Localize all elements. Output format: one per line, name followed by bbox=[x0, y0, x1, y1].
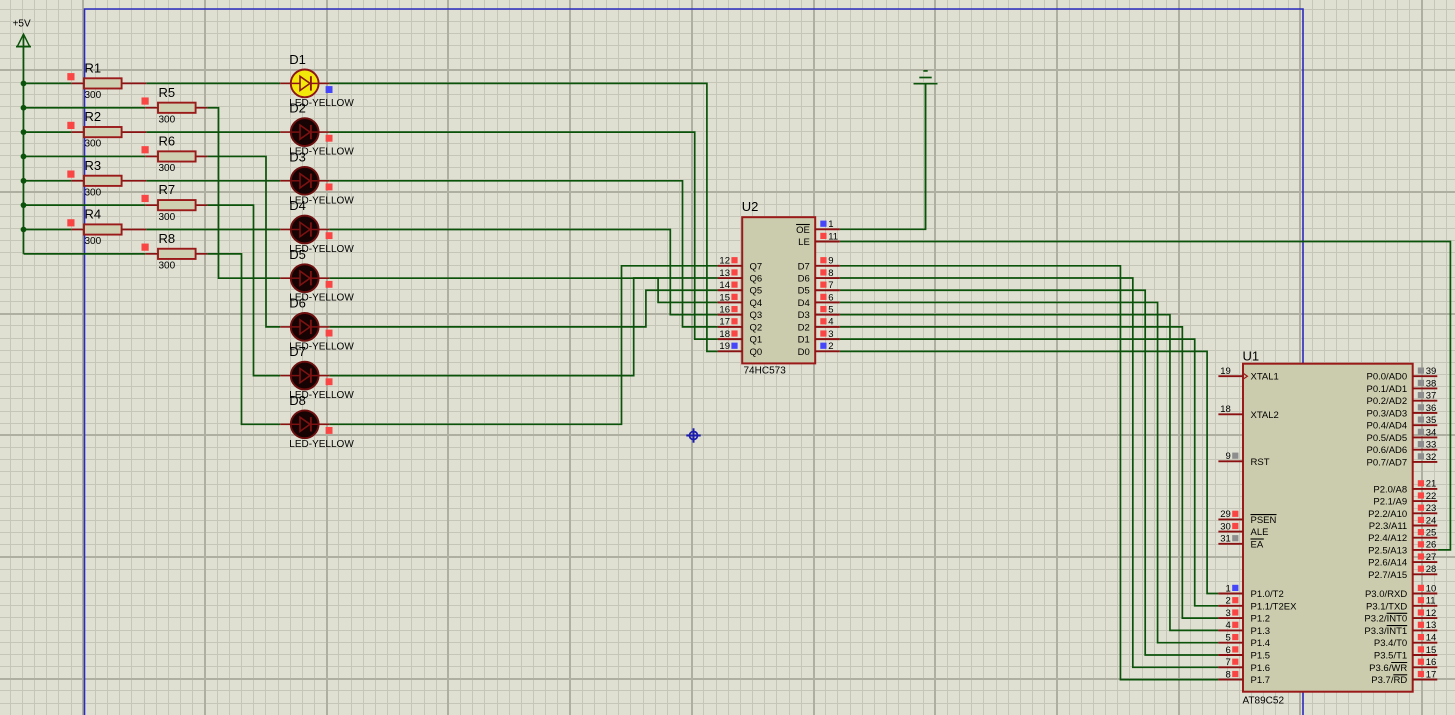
svg-text:2: 2 bbox=[828, 341, 833, 352]
pin 2 (D0) bbox=[798, 341, 840, 358]
wire R4 to D4 bbox=[146, 229, 280, 231]
svg-text:D5: D5 bbox=[289, 247, 306, 262]
svg-text:R2: R2 bbox=[85, 109, 102, 124]
wire D5 to U2 Q4 bbox=[329, 278, 717, 302]
svg-text:300: 300 bbox=[159, 114, 176, 125]
junction bbox=[21, 178, 27, 184]
pin marker (R5) bbox=[142, 97, 149, 104]
pin 25 (P2.4/A12) bbox=[1368, 528, 1437, 545]
pin 34 (P0.5/AD5) bbox=[1367, 427, 1438, 444]
svg-text:P2.7/A15: P2.7/A15 bbox=[1368, 570, 1407, 581]
value 300 (R6) bbox=[159, 163, 176, 174]
value LED-YELLOW (D3) bbox=[289, 195, 354, 206]
pin 16 (Q3) bbox=[718, 304, 763, 321]
svg-text:14: 14 bbox=[719, 280, 730, 291]
svg-text:R1: R1 bbox=[85, 60, 102, 75]
svg-text:13: 13 bbox=[719, 268, 730, 279]
svg-text:11: 11 bbox=[1426, 596, 1436, 607]
pin 33 (P0.6/AD6) bbox=[1367, 440, 1438, 457]
pin marker (D5) bbox=[326, 281, 333, 288]
svg-text:Q7: Q7 bbox=[750, 261, 763, 272]
svg-text:D8: D8 bbox=[289, 393, 306, 408]
label R3 bbox=[85, 158, 102, 173]
pin 9 (D7) bbox=[798, 256, 840, 273]
svg-text:34: 34 bbox=[1426, 427, 1437, 438]
pin 38 (P0.1/AD1) bbox=[1367, 378, 1438, 395]
svg-text:36: 36 bbox=[1426, 403, 1437, 414]
svg-text:P2.0/A8: P2.0/A8 bbox=[1373, 484, 1407, 495]
wire D1 to U2 Q0 bbox=[329, 83, 717, 351]
wire D3 to U2 Q2 bbox=[329, 181, 717, 327]
svg-text:P3.1/TXD: P3.1/TXD bbox=[1366, 601, 1407, 612]
svg-text:1: 1 bbox=[1226, 583, 1231, 594]
wire rail to R2 bbox=[24, 131, 72, 133]
svg-text:29: 29 bbox=[1220, 509, 1231, 520]
label D5 bbox=[289, 247, 306, 262]
svg-text:D1: D1 bbox=[289, 52, 306, 67]
svg-text:+5V: +5V bbox=[13, 19, 31, 30]
pin 9 (RST) bbox=[1218, 451, 1269, 468]
svg-text:P1.6: P1.6 bbox=[1251, 663, 1271, 674]
resistor R7 bbox=[145, 200, 207, 210]
svg-text:P0.1/AD1: P0.1/AD1 bbox=[1367, 384, 1408, 395]
resistor R1 bbox=[71, 78, 146, 88]
svg-text:U2: U2 bbox=[742, 199, 759, 214]
svg-text:R4: R4 bbox=[85, 207, 102, 222]
svg-text:Q4: Q4 bbox=[750, 298, 763, 309]
svg-text:16: 16 bbox=[1426, 657, 1437, 668]
wire U2 D3 to U1 P1.3 bbox=[840, 315, 1219, 631]
latch U2 74HC573 bbox=[742, 217, 815, 363]
pin marker (D4) bbox=[326, 232, 333, 239]
wire U2 D2 to U1 P1.2 bbox=[840, 327, 1219, 618]
svg-text:P3.4/T0: P3.4/T0 bbox=[1374, 638, 1407, 649]
LED D8 bbox=[280, 410, 329, 438]
pin 21 (P2.0/A8) bbox=[1373, 479, 1437, 496]
label R1 bbox=[85, 60, 102, 75]
svg-text:R6: R6 bbox=[159, 133, 176, 148]
svg-text:P3.5/T1: P3.5/T1 bbox=[1374, 651, 1407, 662]
value LED-YELLOW (D1) bbox=[289, 98, 354, 109]
svg-text:5: 5 bbox=[1226, 633, 1231, 644]
pin 12 (Q7) bbox=[718, 256, 763, 273]
svg-text:13: 13 bbox=[1426, 620, 1437, 631]
value 300 (R7) bbox=[159, 212, 176, 223]
wire U2 D5 to U1 P1.5 bbox=[840, 290, 1219, 655]
pin 8 (P1.7) bbox=[1218, 669, 1270, 686]
svg-text:Q3: Q3 bbox=[750, 310, 763, 321]
pin 4 (D2) bbox=[798, 317, 840, 334]
svg-text:R5: R5 bbox=[159, 85, 176, 100]
svg-text:25: 25 bbox=[1426, 528, 1437, 539]
resistor R3 bbox=[71, 176, 146, 186]
svg-text:15: 15 bbox=[719, 292, 730, 303]
svg-text:XTAL1: XTAL1 bbox=[1251, 372, 1279, 383]
svg-text:LED-YELLOW: LED-YELLOW bbox=[289, 439, 354, 450]
svg-text:D3: D3 bbox=[289, 149, 306, 164]
wire D2 to U2 Q1 bbox=[329, 132, 717, 339]
wire U2 D0 to U1 P1.0 bbox=[840, 351, 1219, 593]
svg-text:D4: D4 bbox=[289, 198, 306, 213]
pin 13 (Q6) bbox=[718, 268, 763, 285]
pin 26 (P2.5/A13) bbox=[1368, 540, 1437, 557]
value LED-YELLOW (D6) bbox=[289, 341, 354, 352]
wire R6 to D6 bbox=[207, 156, 280, 326]
svg-text:300: 300 bbox=[85, 139, 102, 150]
wire rail to R3 bbox=[24, 180, 72, 182]
svg-text:Q6: Q6 bbox=[750, 274, 763, 285]
svg-text:300: 300 bbox=[85, 90, 102, 101]
svg-text:31: 31 bbox=[1220, 534, 1231, 545]
svg-text:7: 7 bbox=[1226, 657, 1231, 668]
svg-text:300: 300 bbox=[85, 187, 102, 198]
pin 5 (D3) bbox=[798, 304, 840, 321]
wire rail to R5 bbox=[24, 107, 146, 109]
pin 3 (D1) bbox=[798, 329, 840, 346]
pin 13 (P3.3/INT1) bbox=[1364, 620, 1437, 637]
pin marker (D3) bbox=[326, 184, 333, 191]
wire U2 D6 to U1 P1.6 bbox=[840, 278, 1219, 667]
wire R5 to D5 bbox=[207, 108, 280, 278]
svg-text:D6: D6 bbox=[289, 296, 306, 311]
svg-text:28: 28 bbox=[1426, 564, 1437, 575]
value LED-YELLOW (D5) bbox=[289, 293, 354, 304]
pin 12 (P3.2/INT0) bbox=[1364, 608, 1437, 625]
svg-text:P0.7/AD7: P0.7/AD7 bbox=[1367, 457, 1408, 468]
pin 10 (P3.0/RXD) bbox=[1365, 583, 1437, 600]
pin 17 (Q2) bbox=[718, 317, 763, 334]
svg-text:24: 24 bbox=[1426, 515, 1437, 526]
pin marker (R6) bbox=[142, 146, 149, 153]
pin 6 (D4) bbox=[798, 292, 840, 309]
wire R8 to D8 bbox=[207, 254, 280, 424]
svg-text:32: 32 bbox=[1426, 452, 1437, 463]
value 300 (R4) bbox=[85, 236, 102, 247]
svg-text:P0.4/AD4: P0.4/AD4 bbox=[1367, 421, 1408, 432]
pin 4 (P1.3) bbox=[1218, 620, 1270, 637]
label D4 bbox=[289, 198, 306, 213]
svg-text:R3: R3 bbox=[85, 158, 102, 173]
pin 19 (XTAL1) bbox=[1218, 366, 1278, 383]
svg-text:D2: D2 bbox=[289, 101, 306, 116]
LED D2 bbox=[280, 118, 329, 146]
svg-text:D6: D6 bbox=[798, 274, 810, 285]
svg-text:300: 300 bbox=[159, 212, 176, 223]
svg-text:26: 26 bbox=[1426, 540, 1437, 551]
wire R2 to D2 bbox=[146, 131, 280, 133]
junction bbox=[21, 81, 27, 87]
svg-text:P1.3: P1.3 bbox=[1251, 626, 1271, 637]
svg-text:22: 22 bbox=[1426, 491, 1437, 502]
wire U2 LE to U1 P2.5 bbox=[840, 242, 1451, 550]
pin marker (D1) bbox=[326, 86, 333, 93]
label D7 bbox=[289, 344, 306, 359]
svg-text:P2.3/A11: P2.3/A11 bbox=[1369, 521, 1407, 532]
value LED-YELLOW (D8) bbox=[289, 439, 354, 450]
pin marker (R2) bbox=[67, 122, 74, 129]
label R5 bbox=[159, 85, 176, 100]
pin marker (R1) bbox=[67, 73, 74, 80]
label R4 bbox=[85, 207, 102, 222]
svg-text:D2: D2 bbox=[798, 322, 810, 333]
svg-text:1: 1 bbox=[828, 219, 833, 230]
svg-text:74HC573: 74HC573 bbox=[744, 366, 787, 377]
svg-text:P2.1/A9: P2.1/A9 bbox=[1373, 497, 1407, 508]
svg-text:17: 17 bbox=[719, 317, 730, 328]
LED D1 bbox=[280, 70, 329, 98]
pin marker (D2) bbox=[326, 135, 333, 142]
pin 32 (P0.7/AD7) bbox=[1367, 452, 1438, 469]
LED D5 bbox=[280, 264, 329, 292]
svg-text:P1.2: P1.2 bbox=[1251, 614, 1271, 625]
label D2 bbox=[289, 101, 306, 116]
LED D7 bbox=[280, 362, 329, 390]
wire U2 OE to ground bbox=[840, 84, 926, 230]
svg-text:6: 6 bbox=[828, 292, 833, 303]
wire U2 D1 to U1 P1.1 bbox=[840, 339, 1219, 606]
svg-text:D4: D4 bbox=[798, 298, 810, 309]
pin 15 (Q4) bbox=[718, 292, 763, 309]
ground bbox=[914, 71, 938, 229]
pin 2 (P1.1/T2EX) bbox=[1218, 596, 1297, 613]
resistor R4 bbox=[71, 224, 146, 234]
value 300 (R5) bbox=[159, 114, 176, 125]
svg-text:300: 300 bbox=[159, 163, 176, 174]
wire D7 to U2 Q6 bbox=[329, 278, 717, 376]
pin marker (D6) bbox=[326, 330, 333, 337]
wire D4 to U2 Q3 bbox=[329, 230, 717, 315]
svg-text:D7: D7 bbox=[289, 344, 306, 359]
svg-text:RST: RST bbox=[1251, 457, 1270, 468]
svg-text:P1.0/T2: P1.0/T2 bbox=[1251, 589, 1284, 600]
svg-text:P1.5: P1.5 bbox=[1251, 651, 1271, 662]
LED D3 bbox=[280, 167, 329, 195]
pin 1 (OE) bbox=[796, 219, 840, 236]
pin 18 (XTAL2) bbox=[1218, 404, 1278, 421]
svg-text:EA: EA bbox=[1251, 539, 1264, 550]
pin 15 (P3.5/T1) bbox=[1374, 645, 1437, 662]
svg-text:Q2: Q2 bbox=[750, 322, 763, 333]
value 300 (R3) bbox=[85, 187, 102, 198]
wire R1 to D1 bbox=[146, 82, 280, 84]
svg-text:P0.6/AD6: P0.6/AD6 bbox=[1367, 445, 1408, 456]
svg-text:D7: D7 bbox=[798, 261, 810, 272]
pin marker (D8) bbox=[326, 427, 333, 434]
svg-text:12: 12 bbox=[719, 256, 730, 267]
svg-text:P0.5/AD5: P0.5/AD5 bbox=[1367, 433, 1408, 444]
label R6 bbox=[159, 133, 176, 148]
svg-text:LE: LE bbox=[798, 237, 810, 248]
pin 8 (D6) bbox=[798, 268, 840, 285]
svg-text:12: 12 bbox=[1426, 608, 1437, 619]
svg-text:XTAL2: XTAL2 bbox=[1251, 410, 1279, 421]
svg-text:17: 17 bbox=[1426, 669, 1437, 680]
pin 37 (P0.2/AD2) bbox=[1367, 391, 1438, 408]
LED D6 bbox=[280, 313, 329, 341]
junction bbox=[21, 227, 27, 233]
microcontroller U1 AT89C52 bbox=[1243, 364, 1413, 692]
pin 39 (P0.0/AD0) bbox=[1367, 366, 1438, 383]
svg-text:OE: OE bbox=[796, 225, 810, 236]
value 300 (R8) bbox=[159, 260, 176, 271]
svg-text:Q5: Q5 bbox=[750, 286, 763, 297]
label U2 bbox=[742, 199, 759, 214]
wire U2 D4 to U1 P1.4 bbox=[840, 302, 1219, 642]
svg-text:P0.3/AD3: P0.3/AD3 bbox=[1367, 408, 1408, 419]
svg-text:18: 18 bbox=[719, 329, 730, 340]
value 74HC573 bbox=[744, 366, 787, 377]
pin 22 (P2.1/A9) bbox=[1373, 491, 1437, 508]
junction bbox=[21, 154, 27, 160]
svg-text:P3.2/INT0: P3.2/INT0 bbox=[1364, 614, 1407, 625]
svg-text:14: 14 bbox=[1426, 633, 1437, 644]
pin marker (R3) bbox=[67, 171, 74, 178]
svg-text:AT89C52: AT89C52 bbox=[1243, 696, 1285, 707]
origin marker bbox=[686, 428, 700, 442]
svg-text:P1.7: P1.7 bbox=[1251, 675, 1271, 686]
pin 30 (ALE) bbox=[1218, 521, 1268, 538]
svg-text:P1.4: P1.4 bbox=[1251, 638, 1271, 649]
wire rail to R7 bbox=[24, 204, 146, 206]
svg-text:P1.1/T2EX: P1.1/T2EX bbox=[1251, 601, 1298, 612]
wire D6 to U2 Q5 bbox=[329, 290, 717, 327]
svg-text:35: 35 bbox=[1426, 415, 1437, 426]
pin marker (R4) bbox=[67, 219, 74, 226]
svg-text:9: 9 bbox=[1226, 451, 1231, 462]
svg-text:P0.2/AD2: P0.2/AD2 bbox=[1367, 396, 1408, 407]
pin 19 (Q0) bbox=[718, 341, 763, 358]
pin 18 (Q1) bbox=[718, 329, 763, 346]
svg-text:33: 33 bbox=[1426, 440, 1437, 451]
pin 27 (P2.6/A14) bbox=[1368, 552, 1437, 569]
svg-text:8: 8 bbox=[1226, 669, 1231, 680]
wire D8 to U2 Q7 bbox=[329, 266, 717, 425]
svg-text:3: 3 bbox=[828, 329, 833, 340]
svg-text:U1: U1 bbox=[1243, 349, 1260, 364]
svg-text:15: 15 bbox=[1426, 645, 1437, 656]
svg-text:D3: D3 bbox=[798, 310, 810, 321]
svg-text:37: 37 bbox=[1426, 391, 1437, 402]
pin 17 (P3.7/RD) bbox=[1371, 669, 1437, 686]
svg-text:2: 2 bbox=[1226, 596, 1231, 607]
svg-text:4: 4 bbox=[828, 317, 833, 328]
label D6 bbox=[289, 296, 306, 311]
svg-text:10: 10 bbox=[1426, 583, 1437, 594]
junction bbox=[21, 202, 27, 208]
svg-text:P2.6/A14: P2.6/A14 bbox=[1368, 558, 1407, 569]
label R8 bbox=[159, 231, 176, 246]
wire U2 D7 to U1 P1.7 bbox=[840, 266, 1219, 680]
svg-text:8: 8 bbox=[828, 268, 833, 279]
pin 36 (P0.3/AD3) bbox=[1367, 403, 1438, 420]
svg-text:P2.2/A10: P2.2/A10 bbox=[1368, 509, 1407, 520]
svg-text:9: 9 bbox=[828, 256, 833, 267]
label R2 bbox=[85, 109, 102, 124]
pin marker (R7) bbox=[142, 195, 149, 202]
power +5V bbox=[13, 19, 31, 47]
svg-text:Q0: Q0 bbox=[750, 347, 763, 358]
pin 11 (P3.1/TXD) bbox=[1366, 596, 1437, 613]
svg-text:P3.3/INT1: P3.3/INT1 bbox=[1364, 626, 1407, 637]
svg-text:PSEN: PSEN bbox=[1251, 515, 1277, 526]
svg-text:D0: D0 bbox=[798, 347, 810, 358]
wire R7 to D7 bbox=[207, 205, 280, 375]
resistor R2 bbox=[71, 127, 146, 137]
svg-text:P3.7/RD: P3.7/RD bbox=[1371, 675, 1407, 686]
pin 14 (Q5) bbox=[718, 280, 763, 297]
svg-text:19: 19 bbox=[1220, 366, 1231, 377]
label D1 bbox=[289, 52, 306, 67]
pin marker (D7) bbox=[326, 378, 333, 385]
svg-text:16: 16 bbox=[719, 304, 730, 315]
resistor R5 bbox=[145, 103, 207, 113]
LED D4 bbox=[280, 216, 329, 244]
pin 1 (P1.0/T2) bbox=[1218, 583, 1283, 600]
wire rail to R1 bbox=[24, 82, 72, 84]
wire rail to R6 bbox=[24, 155, 146, 157]
svg-text:300: 300 bbox=[159, 260, 176, 271]
svg-text:7: 7 bbox=[828, 280, 833, 291]
wire +5V rail vertical bbox=[23, 35, 25, 254]
svg-text:11: 11 bbox=[828, 231, 838, 242]
value LED-YELLOW (D2) bbox=[289, 147, 354, 158]
svg-text:D1: D1 bbox=[798, 335, 810, 346]
svg-text:38: 38 bbox=[1426, 378, 1437, 389]
svg-text:D5: D5 bbox=[798, 286, 810, 297]
wire R3 to D3 bbox=[146, 180, 280, 182]
svg-text:21: 21 bbox=[1426, 479, 1437, 490]
label D8 bbox=[289, 393, 306, 408]
value 300 (R1) bbox=[85, 90, 102, 101]
pin 5 (P1.4) bbox=[1218, 633, 1270, 650]
svg-text:ALE: ALE bbox=[1251, 527, 1269, 538]
svg-text:300: 300 bbox=[85, 236, 102, 247]
svg-text:18: 18 bbox=[1220, 404, 1231, 415]
pin 14 (P3.4/T0) bbox=[1374, 633, 1437, 650]
svg-text:4: 4 bbox=[1226, 620, 1231, 631]
svg-text:23: 23 bbox=[1426, 503, 1437, 514]
value 300 (R2) bbox=[85, 139, 102, 150]
svg-text:30: 30 bbox=[1220, 521, 1231, 532]
pin 3 (P1.2) bbox=[1218, 608, 1270, 625]
pin 11 (LE) bbox=[798, 231, 840, 248]
value AT89C52 bbox=[1243, 696, 1285, 707]
wire rail to R8 bbox=[24, 253, 146, 255]
svg-text:P3.6/WR: P3.6/WR bbox=[1369, 663, 1407, 674]
value LED-YELLOW (D4) bbox=[289, 244, 354, 255]
svg-text:5: 5 bbox=[828, 304, 833, 315]
svg-text:R7: R7 bbox=[159, 182, 176, 197]
svg-text:P0.0/AD0: P0.0/AD0 bbox=[1367, 372, 1408, 383]
svg-text:Q1: Q1 bbox=[750, 335, 763, 346]
svg-text:6: 6 bbox=[1226, 645, 1231, 656]
pin 29 (PSEN) bbox=[1218, 509, 1276, 526]
svg-text:19: 19 bbox=[719, 341, 730, 352]
resistor R8 bbox=[145, 249, 207, 259]
svg-text:R8: R8 bbox=[159, 231, 176, 246]
svg-text:27: 27 bbox=[1426, 552, 1437, 563]
pin 16 (P3.6/WR) bbox=[1369, 657, 1437, 674]
pin 6 (P1.5) bbox=[1218, 645, 1270, 662]
pin 28 (P2.7/A15) bbox=[1368, 564, 1437, 581]
junction bbox=[21, 105, 27, 111]
svg-text:P2.5/A13: P2.5/A13 bbox=[1368, 545, 1407, 556]
label D3 bbox=[289, 149, 306, 164]
label U1 bbox=[1243, 349, 1260, 364]
wire rail to R4 bbox=[24, 229, 72, 231]
pin 31 (EA) bbox=[1218, 534, 1263, 551]
label R7 bbox=[159, 182, 176, 197]
